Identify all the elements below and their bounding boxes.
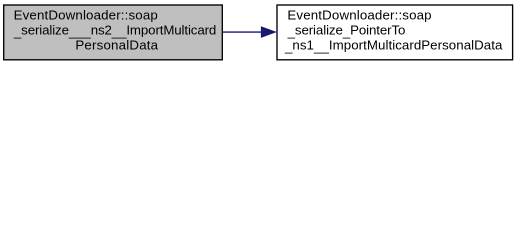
svg-text:_ns1__ImportMulticardPersonalD: _ns1__ImportMulticardPersonalData xyxy=(284,38,503,55)
svg-text:EventDownloader::soap: EventDownloader::soap xyxy=(14,8,158,23)
svg-text:_serialize___ns2__ImportMultic: _serialize___ns2__ImportMulticard xyxy=(13,22,216,39)
svg-text:EventDownloader::soap: EventDownloader::soap xyxy=(287,8,431,23)
node box: EventDownloader::soap_serialize___ns2__ImportMulticardPersonalData (current node, grey fill) xyxy=(4,5,223,60)
edge wire: horizontal arrow shaft from left node to right node xyxy=(223,31,262,33)
node box: EventDownloader::soap_serialize_PointerTo_ns1__ImportMulticardPersonalData (white fill) xyxy=(277,5,513,60)
edge arrowhead pointing right xyxy=(261,27,275,37)
svg-text:_serialize_PointerTo: _serialize_PointerTo xyxy=(287,22,406,39)
svg-text:PersonalData: PersonalData xyxy=(75,38,158,53)
